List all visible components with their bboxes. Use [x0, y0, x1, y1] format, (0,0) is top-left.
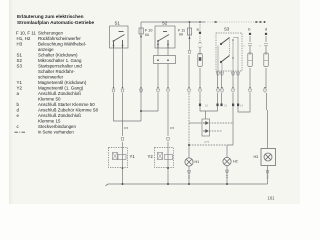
node b	[244, 27, 253, 67]
svg-text:Stromlaufplan Automatic-Getrie: Stromlaufplan Automatic-Getriebe	[17, 20, 95, 26]
wire: S2 left drop	[157, 64, 159, 89]
node d	[260, 27, 269, 67]
wire: S1 right drop to Y1	[122, 48, 124, 184]
wire: earth bus	[108, 183, 268, 185]
svg-text:Startsperrschalter und: Startsperrschalter und	[38, 64, 82, 69]
svg-text:0,5: 0,5	[170, 126, 175, 130]
svg-text:Sicherungen: Sicherungen	[38, 31, 63, 36]
wire: F11 to H1 lamp	[188, 123, 190, 145]
fuse F10	[139, 28, 152, 37]
switch S1	[110, 21, 129, 49]
junction dots mid	[140, 104, 239, 147]
wire: a to S3 U-link	[200, 103, 218, 111]
svg-text:Klemme 15: Klemme 15	[38, 119, 61, 124]
svg-text:S1: S1	[17, 53, 23, 58]
svg-text:Y2: Y2	[17, 86, 23, 91]
wire: S1 left feed	[114, 93, 142, 121]
lamp H2	[223, 157, 238, 165]
inline connector symbols (trapezoid + dot) at y=88-93	[112, 89, 266, 92]
svg-text:Y1: Y1	[17, 80, 23, 85]
svg-text:Magnetventil (Kickdown): Magnetventil (Kickdown)	[38, 80, 87, 85]
page edge shadow	[9, 0, 10, 204]
svg-text:S2: S2	[162, 21, 168, 26]
wire: S3 exit 1	[217, 71, 219, 103]
solenoid valve Y2	[148, 148, 174, 170]
fuse F11	[178, 28, 192, 39]
lamp H1	[185, 158, 199, 166]
svg-text:Magnetventil (1. Gang): Magnetventil (1. Gang)	[38, 86, 84, 91]
svg-text:anzeige: anzeige	[38, 47, 54, 52]
wire: S1 left drop	[113, 48, 115, 88]
wire: top supply bus dashed	[205, 21, 256, 23]
svg-text:Anschluß Zündschloß: Anschluß Zündschloß	[38, 91, 81, 96]
svg-text:Anschluß Starter Klemme 50: Anschluß Starter Klemme 50	[38, 102, 95, 107]
S3 mechanical link	[229, 39, 231, 56]
wire: top supply bus solid	[141, 21, 205, 23]
legend list	[16, 31, 98, 130]
S3 lower contact	[221, 56, 230, 63]
switch S2	[154, 21, 176, 64]
S3 internal wires	[218, 37, 238, 71]
bus arrows	[189, 21, 266, 23]
svg-text:S1: S1	[115, 21, 121, 26]
wire: S2 right drop to Y2	[167, 64, 169, 185]
svg-text:Y1: Y1	[130, 154, 136, 159]
S2 connector housing	[154, 56, 176, 64]
wire: S3 exit 4 to b	[238, 36, 250, 112]
wire: junction F10/S2	[141, 93, 158, 111]
S1 lever	[114, 32, 125, 49]
svg-text:F 10: F 10	[145, 29, 152, 33]
solenoid valve Y1	[109, 148, 136, 170]
wire: F11 into coupler box	[189, 122, 202, 124]
wire: F11 drop	[188, 22, 191, 88]
svg-text:H1: H1	[195, 160, 200, 164]
wire: earth bus left end tick	[106, 184, 109, 186]
wire: H1 to earth bus	[188, 167, 190, 185]
svg-text:H3: H3	[17, 42, 23, 47]
svg-text:scheinwerfer: scheinwerfer	[38, 75, 64, 80]
node a	[197, 21, 203, 66]
wire: a-column	[199, 22, 201, 42]
svg-text:in Serie vorhanden: in Serie vorhanden	[38, 130, 74, 135]
svg-text:Beleuchtung Wählhebel-: Beleuchtung Wählhebel-	[38, 42, 87, 47]
bus junction dots	[122, 183, 229, 185]
svg-text:F 10, F 11: F 10, F 11	[16, 31, 36, 36]
lamp bottom connectors	[188, 170, 269, 178]
svg-text:Klemme 50: Klemme 50	[38, 97, 61, 102]
Y1 Y2 inline connectors at y=137	[121, 138, 169, 141]
wire: stub U to coupler	[205, 111, 207, 119]
F11 inline connector	[188, 51, 191, 54]
wire: F10 drop	[140, 22, 142, 121]
wire: H3 to earth bus	[267, 166, 269, 184]
coupler box with arrows	[202, 119, 210, 136]
S3 exit connectors at y=72	[217, 72, 240, 75]
lamp H3	[254, 149, 276, 166]
svg-text:Schalter Rückfahr-: Schalter Rückfahr-	[38, 69, 75, 74]
switch S3	[216, 27, 242, 72]
svg-text:0,5: 0,5	[124, 126, 129, 130]
svg-text:d: d	[265, 27, 267, 32]
svg-text:Y2: Y2	[148, 154, 154, 159]
svg-text:Anschluß Zündschloß: Anschluß Zündschloß	[38, 113, 81, 118]
wire: d-column to H3	[266, 36, 268, 148]
wire gauge labels	[124, 126, 175, 130]
wire: coupler output lower dashed	[209, 130, 222, 132]
svg-text:Rückfahrscheinwerfer: Rückfahrscheinwerfer	[38, 36, 81, 41]
wire: H2 to earth bus	[226, 166, 228, 185]
wire: S3 exit 3 to H2	[227, 71, 233, 158]
wire: coupler output upper dashed	[209, 122, 233, 124]
svg-text:H2: H2	[233, 160, 238, 164]
svg-text:Mikroschalter 1. Gang: Mikroschalter 1. Gang	[38, 58, 82, 63]
svg-text:Schalter (Kickdown): Schalter (Kickdown)	[38, 53, 78, 58]
wire: H1-H2 dashed link	[189, 144, 227, 146]
tiny pin labels	[204, 104, 243, 144]
svg-text:161: 161	[268, 196, 276, 201]
svg-text:Erläuterung zum elektrischen: Erläuterung zum elektrischen	[17, 14, 84, 20]
svg-text:Steckverbindungen: Steckverbindungen	[38, 124, 77, 129]
svg-text:0,75: 0,75	[204, 140, 210, 144]
svg-text:H3: H3	[254, 155, 259, 159]
svg-text:Anschluß Zubehör Klemme 58: Anschluß Zubehör Klemme 58	[38, 108, 98, 113]
svg-text:S3: S3	[17, 64, 23, 69]
S2 lever	[158, 32, 169, 49]
svg-text:S2: S2	[17, 58, 23, 63]
S3 upper contact	[221, 38, 230, 45]
wire: S3 exit 2	[221, 71, 223, 106]
svg-text:S3: S3	[224, 27, 230, 32]
svg-text:H1, H2: H1, H2	[17, 36, 31, 41]
